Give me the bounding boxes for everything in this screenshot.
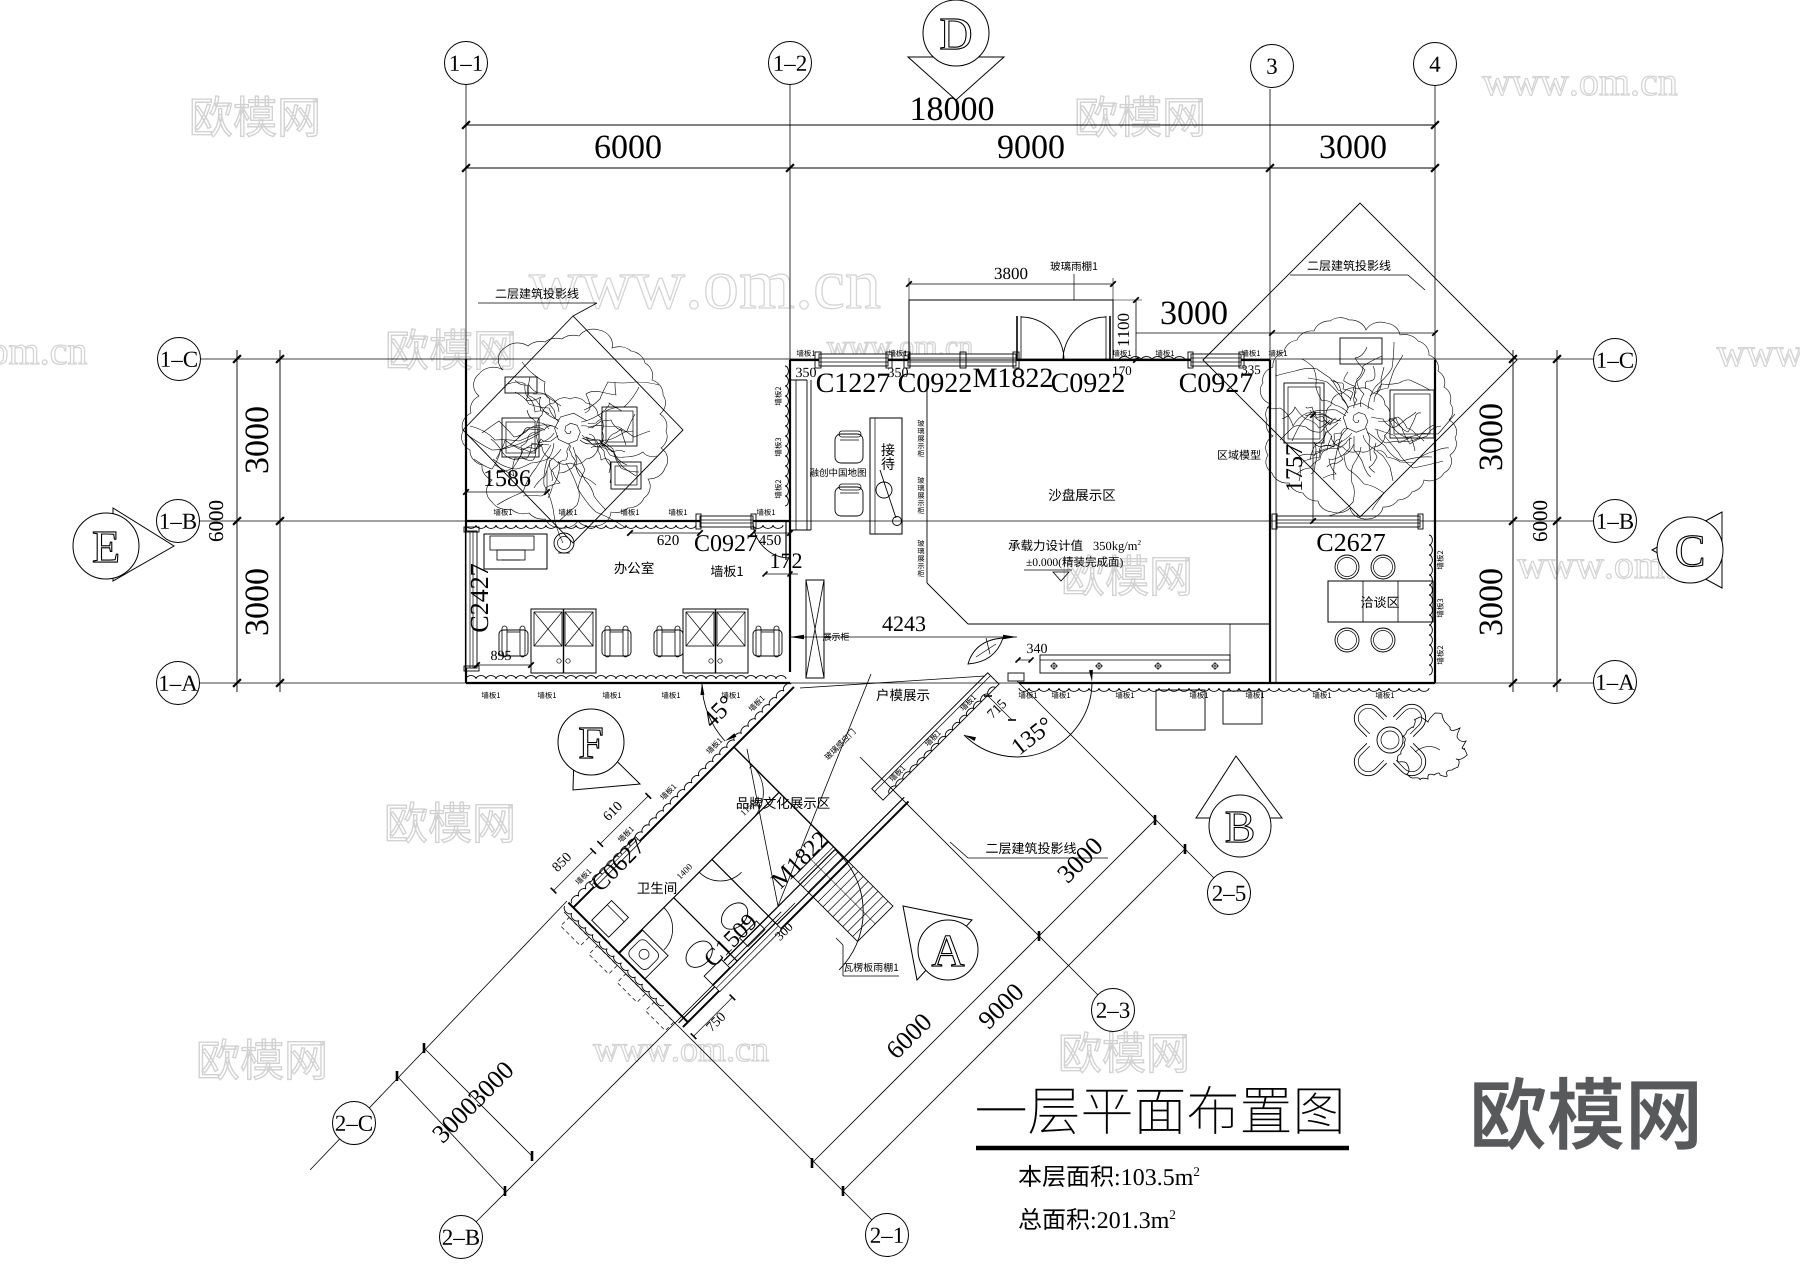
label 二层建筑投影线 right	[1308, 260, 1391, 271]
bench right-N	[1340, 338, 1382, 364]
rotated dim rail P2 with 3000	[424, 1048, 532, 1156]
dimension 3000 upper right	[1136, 332, 1435, 334]
label 玻璃雨棚1	[1050, 261, 1097, 271]
bench left-NW	[502, 418, 539, 457]
label 墙板1 office	[711, 565, 743, 577]
grid line 2-1 diagonal	[564, 912, 872, 1220]
window C1227	[819, 354, 888, 366]
area text 总面积	[1019, 1208, 1175, 1230]
grid bubble 1-C left	[158, 338, 201, 381]
door C0927 swing arc	[753, 521, 790, 558]
grid bubble 2-3	[1092, 989, 1135, 1032]
stairs	[793, 842, 893, 942]
label C0627	[590, 837, 646, 893]
dimension 350/350/170/335 small	[796, 368, 816, 377]
watermark right-mid	[1517, 559, 1712, 578]
grid bubble 1-1	[445, 42, 488, 85]
hall inner partition	[806, 380, 808, 530]
armchair office 4	[753, 630, 782, 656]
瓦楞板雨棚1 label	[844, 963, 898, 972]
armchair office 1	[499, 630, 528, 656]
watermark upper-center	[529, 274, 880, 309]
grid bubble 2-1	[866, 1214, 909, 1257]
bench right-E	[1390, 390, 1434, 438]
45 degree arc at wing corner	[702, 683, 725, 741]
vertical label 1	[918, 420, 925, 427]
grid line 2-C diagonal	[310, 901, 567, 1170]
grid line 2-B diagonal	[476, 903, 795, 1222]
dimension 18000 top	[466, 124, 1435, 126]
bench left-NE	[602, 407, 637, 446]
left dimension rails 3000/6000/3000	[236, 350, 238, 692]
direction symbol F	[573, 720, 640, 790]
reception desk	[870, 418, 902, 534]
label C0927 office	[695, 535, 757, 551]
stool	[1371, 628, 1395, 652]
dashed rects at wing end	[561, 917, 589, 945]
window C0922 pair	[908, 354, 1016, 366]
rotated dim rail P1 with 3000	[397, 1076, 505, 1191]
wing dimension 750	[694, 997, 733, 1036]
office top wall on 1-B	[466, 520, 790, 522]
grid line 2-3 diagonal	[860, 757, 1098, 995]
label 二层建筑投影线 left	[496, 288, 579, 299]
watermark bottom-center	[593, 1044, 768, 1061]
direction symbol B	[1196, 756, 1282, 818]
main hall right wall	[1269, 360, 1271, 683]
left wing west wall	[465, 359, 467, 683]
window C1509 on inner wall	[713, 923, 782, 992]
bench left-S	[611, 462, 641, 489]
grid line 1-B horizontal	[199, 520, 1594, 522]
vertical label 3	[918, 540, 925, 547]
office bottom wall on 1-A	[466, 682, 790, 684]
grid bubble 1-A left	[157, 662, 200, 705]
grid bubble 1-A right	[1594, 661, 1637, 704]
long counter right	[1040, 655, 1230, 673]
135 degree arc	[964, 682, 1092, 757]
dimension row 6000/9000/3000	[466, 167, 1435, 169]
toilet room doors	[725, 765, 779, 819]
品牌文化展示区 label	[737, 797, 830, 810]
stool	[1335, 555, 1359, 579]
window C2427 on west wall	[466, 531, 477, 668]
terrace boundary lines	[800, 676, 985, 688]
grid line 3 vertical	[1269, 89, 1271, 360]
label 融创中国地图	[810, 468, 866, 477]
label 办公室 office	[614, 562, 653, 575]
grid bubble 1-B right	[1594, 500, 1637, 543]
level marker triangle	[1053, 572, 1069, 581]
grid line 4 vertical	[1434, 85, 1436, 683]
label 二层建筑投影线 bottom	[986, 842, 1076, 854]
terrace square 2	[1223, 691, 1262, 724]
watermark left-mid	[388, 329, 513, 370]
dimension 450	[753, 532, 790, 534]
dimension 172	[771, 553, 801, 568]
tree left	[462, 329, 668, 543]
wing dimension 850	[554, 851, 594, 891]
rotated dim rail R1 with 6000 and 3000	[812, 820, 1155, 1163]
grid line 1-2 vertical	[789, 84, 791, 360]
label 展示柜	[823, 632, 849, 640]
toilet 1	[716, 898, 753, 935]
sink	[592, 900, 629, 937]
卫生间 label	[638, 882, 677, 894]
label 户模展示	[876, 689, 929, 702]
dimension 3800	[909, 283, 1113, 285]
watermark top-right	[1482, 76, 1677, 95]
main hall left wall	[789, 360, 791, 672]
second-floor projection square left	[463, 316, 683, 543]
wing dimension 300	[774, 922, 793, 941]
label 135 degrees	[1011, 716, 1054, 755]
dimension 620	[630, 532, 700, 534]
grid bubble 1-B left	[157, 500, 200, 543]
negotiation table 洽谈区	[1328, 581, 1433, 622]
direction symbol A	[903, 906, 972, 980]
flower furniture	[1393, 743, 1431, 781]
dimension 1757 vertical	[1312, 415, 1314, 521]
grid bubble 2-5	[1208, 872, 1251, 915]
door M1822 double leaf	[1016, 316, 1018, 360]
watermark left-lower	[387, 802, 512, 843]
±0.000 text	[1026, 556, 1122, 568]
window labels top row	[817, 373, 890, 392]
threshold stub	[1008, 673, 1024, 681]
direction symbol D (north arrow)	[908, 57, 1004, 100]
right wing east wall	[1434, 360, 1436, 683]
armchair office 2	[602, 630, 631, 656]
grid bubble 4	[1414, 43, 1457, 86]
second-floor projection square right	[1203, 203, 1517, 517]
bench right-W	[1284, 383, 1324, 443]
dimension 4243	[790, 636, 1017, 638]
label M1822 wing	[770, 830, 829, 889]
area text 本层面积	[1019, 1165, 1199, 1187]
bench left-N	[505, 377, 537, 393]
title underline	[976, 1146, 1349, 1151]
window C0927 on 1-B wall	[700, 516, 753, 527]
round stool office	[554, 533, 574, 553]
right dimension rails 3000/6000/3000	[1512, 350, 1514, 692]
armchair office 3	[654, 630, 683, 656]
grid bubble 1-2	[769, 42, 812, 85]
wall labels left wall rotated	[775, 387, 782, 406]
承载力设计值 text	[1008, 539, 1140, 552]
toilet block partitions	[734, 747, 849, 862]
watermark center-small	[827, 342, 973, 357]
title 一层平面布置图	[977, 1086, 1340, 1134]
label 45 degrees	[701, 695, 735, 729]
display cabinet 展示柜	[806, 580, 824, 678]
glass canopy outline above entrance	[909, 300, 1113, 360]
leader line V right	[778, 674, 871, 906]
main hall bottom wall right section	[1019, 682, 1435, 684]
label 玻璃感应门	[823, 728, 856, 761]
reception detail circle	[876, 482, 892, 498]
wing outer wall (upper-left, scalloped)	[573, 687, 794, 908]
grid line 1-A horizontal	[199, 682, 1594, 684]
leader line V left	[747, 749, 778, 906]
watermark bottom-left	[199, 1039, 324, 1080]
top wall scallop segment	[1119, 357, 1185, 360]
vertical label 2	[918, 477, 925, 484]
stool	[1335, 628, 1359, 652]
grid bubble 1-C right	[1594, 339, 1637, 382]
grid line 2-5 diagonal	[1017, 681, 1214, 878]
label 洽谈区	[1361, 596, 1399, 608]
grid bubble 2-B	[440, 1216, 483, 1259]
dimension 715	[987, 698, 1007, 718]
watermark right-edge	[1717, 347, 1800, 366]
big logo 欧模网	[1474, 1077, 1697, 1150]
wall plate labels on top wall	[797, 350, 815, 357]
direction symbol C	[1652, 512, 1722, 588]
office desk	[484, 534, 547, 569]
direction symbol E	[113, 508, 174, 581]
reception chair 1	[835, 434, 863, 463]
window C0927 top right	[1191, 354, 1241, 366]
shrub scribble	[1397, 713, 1467, 780]
watermark top-left	[192, 96, 317, 137]
label C2627	[1317, 534, 1385, 551]
label C1509	[703, 913, 758, 968]
stool	[1371, 555, 1395, 579]
washbasin	[619, 930, 668, 979]
window C2627 on 1-B	[1276, 516, 1420, 527]
canopy band 玻璃雨棚	[872, 673, 999, 800]
wing dimension 610	[600, 796, 648, 844]
label 沙盘展示区	[1049, 489, 1115, 502]
cabinet/sofa office 1	[531, 609, 596, 673]
terrace square 1	[1156, 690, 1205, 730]
dimension 1586	[485, 470, 530, 486]
wing small dims 1150/1400	[740, 800, 756, 816]
dimension 340	[1018, 659, 1031, 661]
wing inner-right wall	[679, 797, 905, 1023]
label 接待 reception	[881, 443, 894, 456]
wing end wall	[568, 903, 688, 1023]
grid line 1-C horizontal	[199, 358, 1594, 360]
window C0627 on outer wall	[590, 837, 641, 888]
watermark top-center	[1077, 96, 1202, 137]
reception chair 2	[835, 487, 863, 516]
watermark center	[1064, 555, 1189, 596]
decorative boat	[968, 638, 1003, 664]
label 区域模型	[1218, 450, 1260, 460]
grid line 1-1 vertical	[465, 84, 467, 359]
sand table area boundary	[926, 380, 928, 583]
rotated wall labels in wing	[748, 694, 766, 712]
watermark bottom-right-area	[1061, 1032, 1186, 1073]
tree right	[1260, 318, 1456, 519]
dimension 895	[477, 664, 531, 666]
dimension 1100 vertical	[1135, 300, 1137, 360]
toilet 2	[681, 936, 718, 973]
grid bubble 2-C	[333, 1102, 376, 1145]
rotated dim rail R2 with 9000	[843, 849, 1185, 1191]
cabinet/sofa office 2	[683, 609, 748, 673]
main hall top wall on 1-C	[790, 359, 1270, 361]
watermark left-edge	[0, 345, 87, 364]
grid bubble 3	[1251, 45, 1294, 88]
